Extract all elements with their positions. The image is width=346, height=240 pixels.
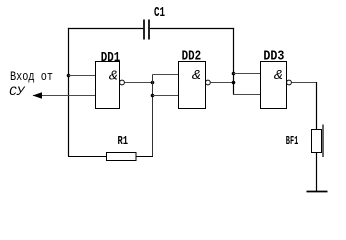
wire DD3 output horizontal xyxy=(291,82,317,84)
svg-text:C1: C1 xyxy=(154,4,165,20)
arrowhead to control unit xyxy=(33,92,43,98)
wire node B to DD3 input 1 xyxy=(234,73,261,75)
transducer BF1 right plate bar xyxy=(322,125,324,158)
transducer BF1 box xyxy=(312,130,322,153)
wire BF1 to ground xyxy=(316,153,318,192)
svg-text:BF1: BF1 xyxy=(286,135,299,148)
wire node D to DD2 input 2 xyxy=(153,95,179,97)
wire node A to DD1 input 1 xyxy=(69,75,96,77)
gate DD2 inverter bubble xyxy=(206,80,211,85)
wire top from C1 right plate to node B riser xyxy=(150,28,234,30)
wire bottom left from left riser to R1 xyxy=(68,156,107,158)
gate DD1 box xyxy=(96,62,120,109)
ground xyxy=(307,191,328,193)
wire left vertical riser xyxy=(68,28,70,157)
gate DD2 box xyxy=(179,62,206,109)
svg-text:DD1: DD1 xyxy=(101,49,121,65)
svg-text:&: & xyxy=(274,68,283,84)
label C1 xyxy=(154,4,165,20)
node B riser vertical xyxy=(233,28,235,95)
label DD2 xyxy=(182,48,202,64)
node A junction dot xyxy=(67,74,71,78)
wire R1 to node C riser xyxy=(136,156,153,158)
gate DD1 inverter bubble xyxy=(120,80,125,85)
label R1 xyxy=(118,135,129,149)
node B junction dot lower xyxy=(232,81,236,85)
node C junction dot xyxy=(151,81,155,85)
svg-text:&: & xyxy=(192,68,201,84)
svg-text:R1: R1 xyxy=(118,135,129,149)
wire DD1 output to node C xyxy=(124,82,152,84)
gate DD3 box xyxy=(261,62,287,109)
wire control-unit arrow line to DD1 input 2 xyxy=(33,95,96,97)
node D junction dot xyxy=(151,94,155,98)
wire node C riser xyxy=(152,75,154,157)
wire DD3 output riser down to BF1 xyxy=(316,82,318,130)
capacitor C1 xyxy=(144,20,149,40)
svg-text:&: & xyxy=(109,69,118,85)
svg-text:DD3: DD3 xyxy=(263,48,284,64)
label BF1 xyxy=(286,135,299,148)
svg-text:DD2: DD2 xyxy=(182,48,202,64)
resistor R1 box xyxy=(107,153,137,161)
gate DD3 inverter bubble xyxy=(287,80,292,85)
wire node C to DD2 input 1 xyxy=(153,74,179,76)
label DD1 xyxy=(101,49,121,65)
svg-text:Вход от: Вход от xyxy=(10,69,53,84)
node B junction dot upper xyxy=(232,72,236,76)
wire DD2 output to node B xyxy=(210,82,233,84)
label DD3 xyxy=(263,48,284,64)
wire node B elbow to DD3 input 2 xyxy=(233,94,261,96)
wire top from left riser to C1 left plate xyxy=(68,28,143,30)
svg-text:СУ: СУ xyxy=(9,84,26,99)
